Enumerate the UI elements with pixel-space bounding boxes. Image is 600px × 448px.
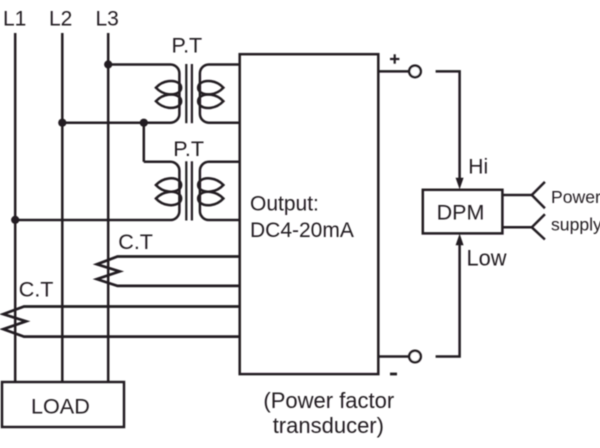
svg-text:supply: supply [551, 214, 600, 234]
LOAD box [2, 382, 124, 427]
svg-text:Power: Power [551, 187, 600, 207]
svg-text:L2: L2 [49, 8, 72, 31]
minus output terminal circle [409, 351, 421, 363]
transformer PT1 secondary leaf 1 [198, 81, 223, 94]
power supply fork bottom [532, 214, 545, 239]
transformer PT1 primary winding [62, 65, 179, 123]
svg-text:transducer): transducer) [273, 413, 384, 438]
transformer PT1 core [186, 64, 192, 123]
transformer PT2 secondary leaf 1 [198, 178, 223, 191]
plus sign [390, 54, 399, 63]
arrowhead into DPM top [456, 178, 464, 190]
svg-text:(Power factor: (Power factor [263, 388, 394, 413]
transformer PT2 core [186, 161, 192, 220]
transformer PT1 secondary winding [200, 65, 240, 123]
wire from minus terminal to DPM Low [436, 244, 460, 357]
svg-text:L1: L1 [3, 8, 26, 31]
wire from box to minus terminal [378, 355, 409, 358]
svg-text:P.T: P.T [173, 137, 204, 161]
svg-text:LOAD: LOAD [31, 393, 90, 418]
svg-text:DPM: DPM [437, 200, 485, 224]
svg-text:L3: L3 [96, 8, 119, 31]
junction dot on L2 [58, 119, 66, 127]
junction dot on L1 [11, 216, 19, 224]
svg-text:Hi: Hi [468, 155, 488, 178]
wire from box to plus terminal [378, 70, 409, 73]
svg-text:P.T: P.T [172, 34, 203, 58]
svg-text:Output:: Output: [250, 193, 319, 216]
minus sign [390, 373, 397, 376]
transducer box [240, 54, 379, 374]
plus output terminal circle [409, 66, 421, 78]
transformer PT2 primary leaf 2 [156, 192, 181, 205]
wire L3 feeder vertical [107, 33, 110, 382]
transformer PT1 secondary leaf 2 [198, 95, 223, 108]
svg-text:DC4-20mA: DC4-20mA [250, 219, 354, 242]
transformer PT2 secondary winding [200, 162, 240, 220]
svg-text:C.T: C.T [118, 230, 153, 254]
wire PT2 branch drop [143, 123, 146, 162]
wire from plus terminal to DPM Hi [436, 71, 460, 179]
current transformer CT2 zigzag and wires [3, 307, 239, 337]
transformer PT2 secondary leaf 2 [198, 192, 223, 205]
transformer PT2 primary leaf 1 [156, 178, 181, 191]
DPM box [423, 190, 503, 234]
wire DPM to power supply top [502, 194, 531, 197]
transformer PT1 primary leaf 1 [156, 81, 181, 94]
junction dot PT2 branch [140, 119, 148, 127]
wire L1 feeder vertical [14, 33, 17, 382]
current transformer CT1 zigzag and wires [97, 257, 240, 286]
transformer PT2 primary winding [15, 162, 179, 220]
wire L2 feeder vertical [61, 33, 64, 382]
power supply fork top [532, 182, 545, 208]
arrowhead into DPM bottom [456, 234, 464, 246]
wire DPM to power supply bottom [502, 226, 531, 229]
svg-text:C.T: C.T [19, 277, 54, 301]
svg-text:Low: Low [467, 245, 507, 270]
transformer PT1 primary leaf 2 [156, 95, 181, 108]
junction dot on L3 [104, 60, 112, 68]
